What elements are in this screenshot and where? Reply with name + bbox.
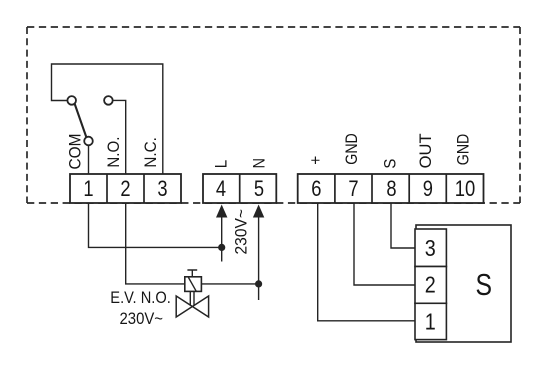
- terminal block 1-3: [70, 174, 181, 203]
- junction dot on N wire: [255, 280, 262, 287]
- wire: relay N.C. loop from pivot to terminal 3: [52, 64, 163, 174]
- wire: terminal 1 down and right to L junction: [89, 203, 222, 247]
- svg-text:+: +: [307, 156, 325, 165]
- svg-text:N.C.: N.C.: [142, 137, 160, 168]
- svg-text:N: N: [250, 158, 268, 169]
- solenoid coil diagonal: [188, 277, 196, 291]
- relay COM contact circle: [84, 137, 93, 146]
- svg-text:L: L: [213, 160, 231, 169]
- terminal block 6-10: [298, 174, 484, 203]
- wire: N.O. contact to terminal 2: [113, 100, 126, 174]
- wire: terminal 6 to sensor pin 1: [318, 203, 415, 321]
- terminal block 4-5: [203, 174, 276, 203]
- valve body right triangle: [192, 296, 208, 317]
- wire: terminal 2 down and right to valve coil: [126, 203, 185, 284]
- svg-text:6: 6: [311, 176, 321, 201]
- svg-text:230V~: 230V~: [120, 310, 164, 328]
- solenoid manual stem: [187, 270, 197, 277]
- svg-text:10: 10: [455, 176, 476, 201]
- sensor pin 3 box: [415, 229, 446, 267]
- mains L supply arrow into terminal 4: [216, 205, 227, 218]
- valve body left triangle: [176, 296, 192, 317]
- wire: terminal 8 to sensor pin 3: [391, 203, 415, 248]
- svg-text:4: 4: [216, 176, 226, 201]
- svg-text:OUT: OUT: [417, 133, 435, 168]
- junction dot on L wire: [218, 244, 225, 251]
- svg-text:3: 3: [425, 235, 436, 261]
- relay N.O. contact circle: [104, 96, 113, 105]
- device outline (dashed border of controller): [27, 27, 520, 203]
- svg-text:N.O.: N.O.: [105, 137, 123, 168]
- relay contact pivot circle (COM arm anchor): [67, 96, 76, 105]
- svg-text:5: 5: [254, 176, 264, 201]
- wire: mains N vertical: [258, 216, 260, 300]
- relay movable arm: [75, 104, 87, 138]
- svg-text:230V~: 230V~: [232, 209, 250, 255]
- svg-text:1: 1: [425, 309, 436, 335]
- svg-text:8: 8: [386, 176, 396, 201]
- svg-text:3: 3: [157, 176, 167, 201]
- solenoid valve EV coil box: [185, 277, 202, 292]
- svg-text:GND: GND: [455, 134, 473, 166]
- solenoid stem to valve body (double line): [190, 292, 194, 306]
- mains N supply arrow into terminal 5: [253, 205, 264, 218]
- svg-text:1: 1: [83, 176, 93, 201]
- svg-text:S: S: [382, 159, 400, 169]
- svg-text:COM: COM: [67, 134, 85, 170]
- wire: mains L vertical: [221, 216, 223, 262]
- wire: valve coil to N junction: [201, 283, 259, 285]
- sensor pin 1 box: [415, 303, 446, 339]
- svg-text:2: 2: [425, 272, 436, 298]
- svg-text:2: 2: [120, 176, 130, 201]
- sensor S outer box: [416, 225, 511, 342]
- svg-text:9: 9: [423, 176, 433, 201]
- wire: COM contact to terminal 1: [88, 145, 90, 174]
- wire: terminal 7 to sensor pin 2: [354, 203, 415, 285]
- svg-text:7: 7: [348, 176, 358, 201]
- svg-text:S: S: [475, 268, 492, 302]
- sensor pin 2 box: [415, 267, 446, 304]
- svg-text:E.V. N.O.: E.V. N.O.: [110, 288, 171, 307]
- svg-text:GND: GND: [343, 133, 361, 165]
